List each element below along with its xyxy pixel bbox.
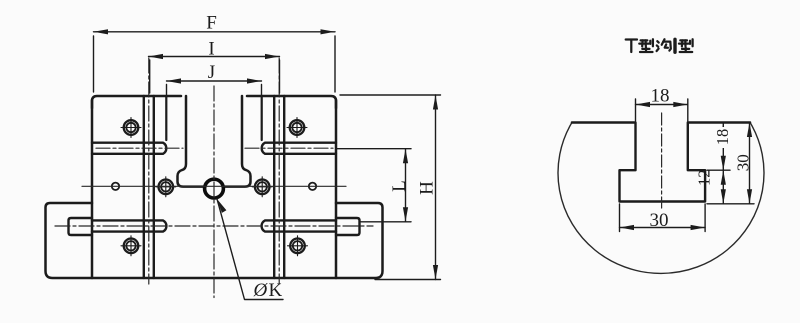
inner vertical line left (J edge) [165,96,167,140]
upper block right edge [335,100,338,278]
upper block top face left segment [92,96,181,108]
lower slot centerline [55,225,373,227]
upper horizontal T-slot right with bulb end [262,143,336,154]
char T [626,40,637,53]
screw mid-right [252,177,272,197]
vertical slot centerline right [278,58,280,284]
dimension J [167,81,262,96]
small hole right [309,183,316,190]
svg-text:L: L [389,180,410,192]
svg-text:F: F [206,13,217,34]
leader OK [217,199,283,300]
svg-text:12: 12 [695,170,714,187]
svg-text:Ø: Ø [253,280,269,301]
dimension 12 right depth [722,170,724,204]
svg-text:30: 30 [734,154,753,171]
char I [673,39,676,52]
dimension 30 right total [707,123,754,204]
dimension I [149,57,280,94]
upper slot centerline left [96,147,183,149]
lower T-slot end cap left [69,218,93,235]
small hole left [112,183,119,190]
dimension 18 right depth [707,123,730,171]
screw top-left [121,118,141,138]
screw top-right [287,118,307,138]
char xing 2 [679,39,693,52]
center hole OK circle [205,179,224,198]
lower T-slot end cap right [336,218,360,235]
screw bottom-left [121,236,141,256]
inner vertical line right (J edge) [261,96,263,140]
svg-text:H: H [417,181,438,195]
vertical T-slot right walls [274,96,284,278]
lower horizontal T-slot left with bulb end [92,220,166,231]
upper slot centerline right [245,147,333,149]
screw mid-left [156,177,176,197]
vertical slot centerline left [148,58,150,284]
lower horizontal T-slot right with bulb end [262,220,336,231]
title T-slot type [626,39,693,52]
upper block top face right segment [247,96,336,108]
horizontal main centerline [82,185,346,187]
lower slab outline right [214,203,383,278]
T-slot profile [572,123,750,202]
svg-text:30: 30 [650,210,669,231]
svg-text:18: 18 [713,129,732,146]
lower slab outline left [46,203,215,278]
dimension 18 top [636,99,688,121]
vertical main centerline [213,86,215,298]
upper horizontal T-slot left with bulb end [92,143,166,154]
detail slot centerline [661,113,663,208]
dimension H [340,95,441,280]
svg-text:I: I [208,39,214,60]
dimension F [94,32,336,92]
dimension 30 bottom width [620,204,706,232]
vertical T-slot left walls [144,96,154,278]
upper block left edge [91,100,94,278]
svg-text:J: J [208,62,215,83]
central notch [178,96,205,187]
dimension L [337,149,411,222]
screw bottom-right [288,236,308,256]
char xing 1 [639,39,653,52]
main outline left view body [46,96,383,278]
svg-text:K: K [269,280,283,301]
char gou [657,39,671,51]
detail bubble circle [558,123,764,274]
svg-text:18: 18 [651,86,670,107]
